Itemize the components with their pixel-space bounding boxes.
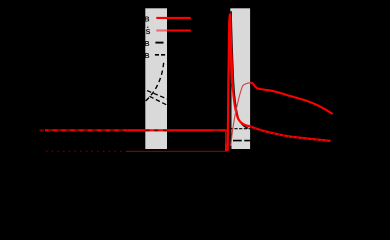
dark red dashed overlay on flat line (left part) (40, 129, 129, 131)
thin black dashed horizontal line at y=128.7 (230, 128, 259, 130)
legend label row 2: stray mark above S (147, 27, 148, 28)
svg-text:B: B (144, 51, 149, 60)
legend handle row 2: alpha red line (pink over band) (156, 29, 167, 31)
black dashed curve C1 rising through band 1 (140, 62, 164, 107)
red flat line (left portion of red curves) (45, 129, 228, 131)
legend handle row 4: dashed black line (155, 54, 191, 56)
black dashed curve D1 descending through band 1 (141, 88, 172, 101)
legend handle row 2: alpha red line (raw red over black) (167, 29, 191, 31)
red dip before spike (upper dark part) (225, 130, 227, 143)
svg-text:B: B (144, 14, 149, 23)
dark red dotted baseline (46, 150, 127, 152)
red dip before spike (lower bright part) (226, 144, 228, 151)
thin red bump curve after band 2 (bright) (251, 83, 333, 114)
thin red bump curve inside band 2 (muted over gray) (231, 83, 251, 146)
svg-text:S: S (146, 27, 151, 36)
dark red dashed overlay on flat line (over band 1) (145, 129, 167, 131)
shaded pulse band 2 (axvspan) (230, 8, 250, 149)
black dashed curve D2 descending through band 1 lower (150, 96, 173, 107)
dark red solid baseline (127, 150, 227, 152)
svg-text:B: B (144, 39, 149, 48)
legend handle row 3: solid black line (155, 42, 163, 44)
legend handle row 1: solid red line (156, 17, 191, 19)
thick black dashed line in band 2 at y=140.6 (233, 140, 252, 142)
shaded pulse band 1 (axvspan) (145, 8, 167, 149)
thick red spike filled wedge (228, 15, 233, 151)
black dashed shadow spike over band 2 (rising + falling edge) (231, 12, 248, 150)
dark red dotted overlay on lower decay curve (250, 127, 330, 141)
dark red dash fragment near x=216 (213, 130, 219, 132)
thick red spike and decay into lower curve (228, 15, 331, 151)
